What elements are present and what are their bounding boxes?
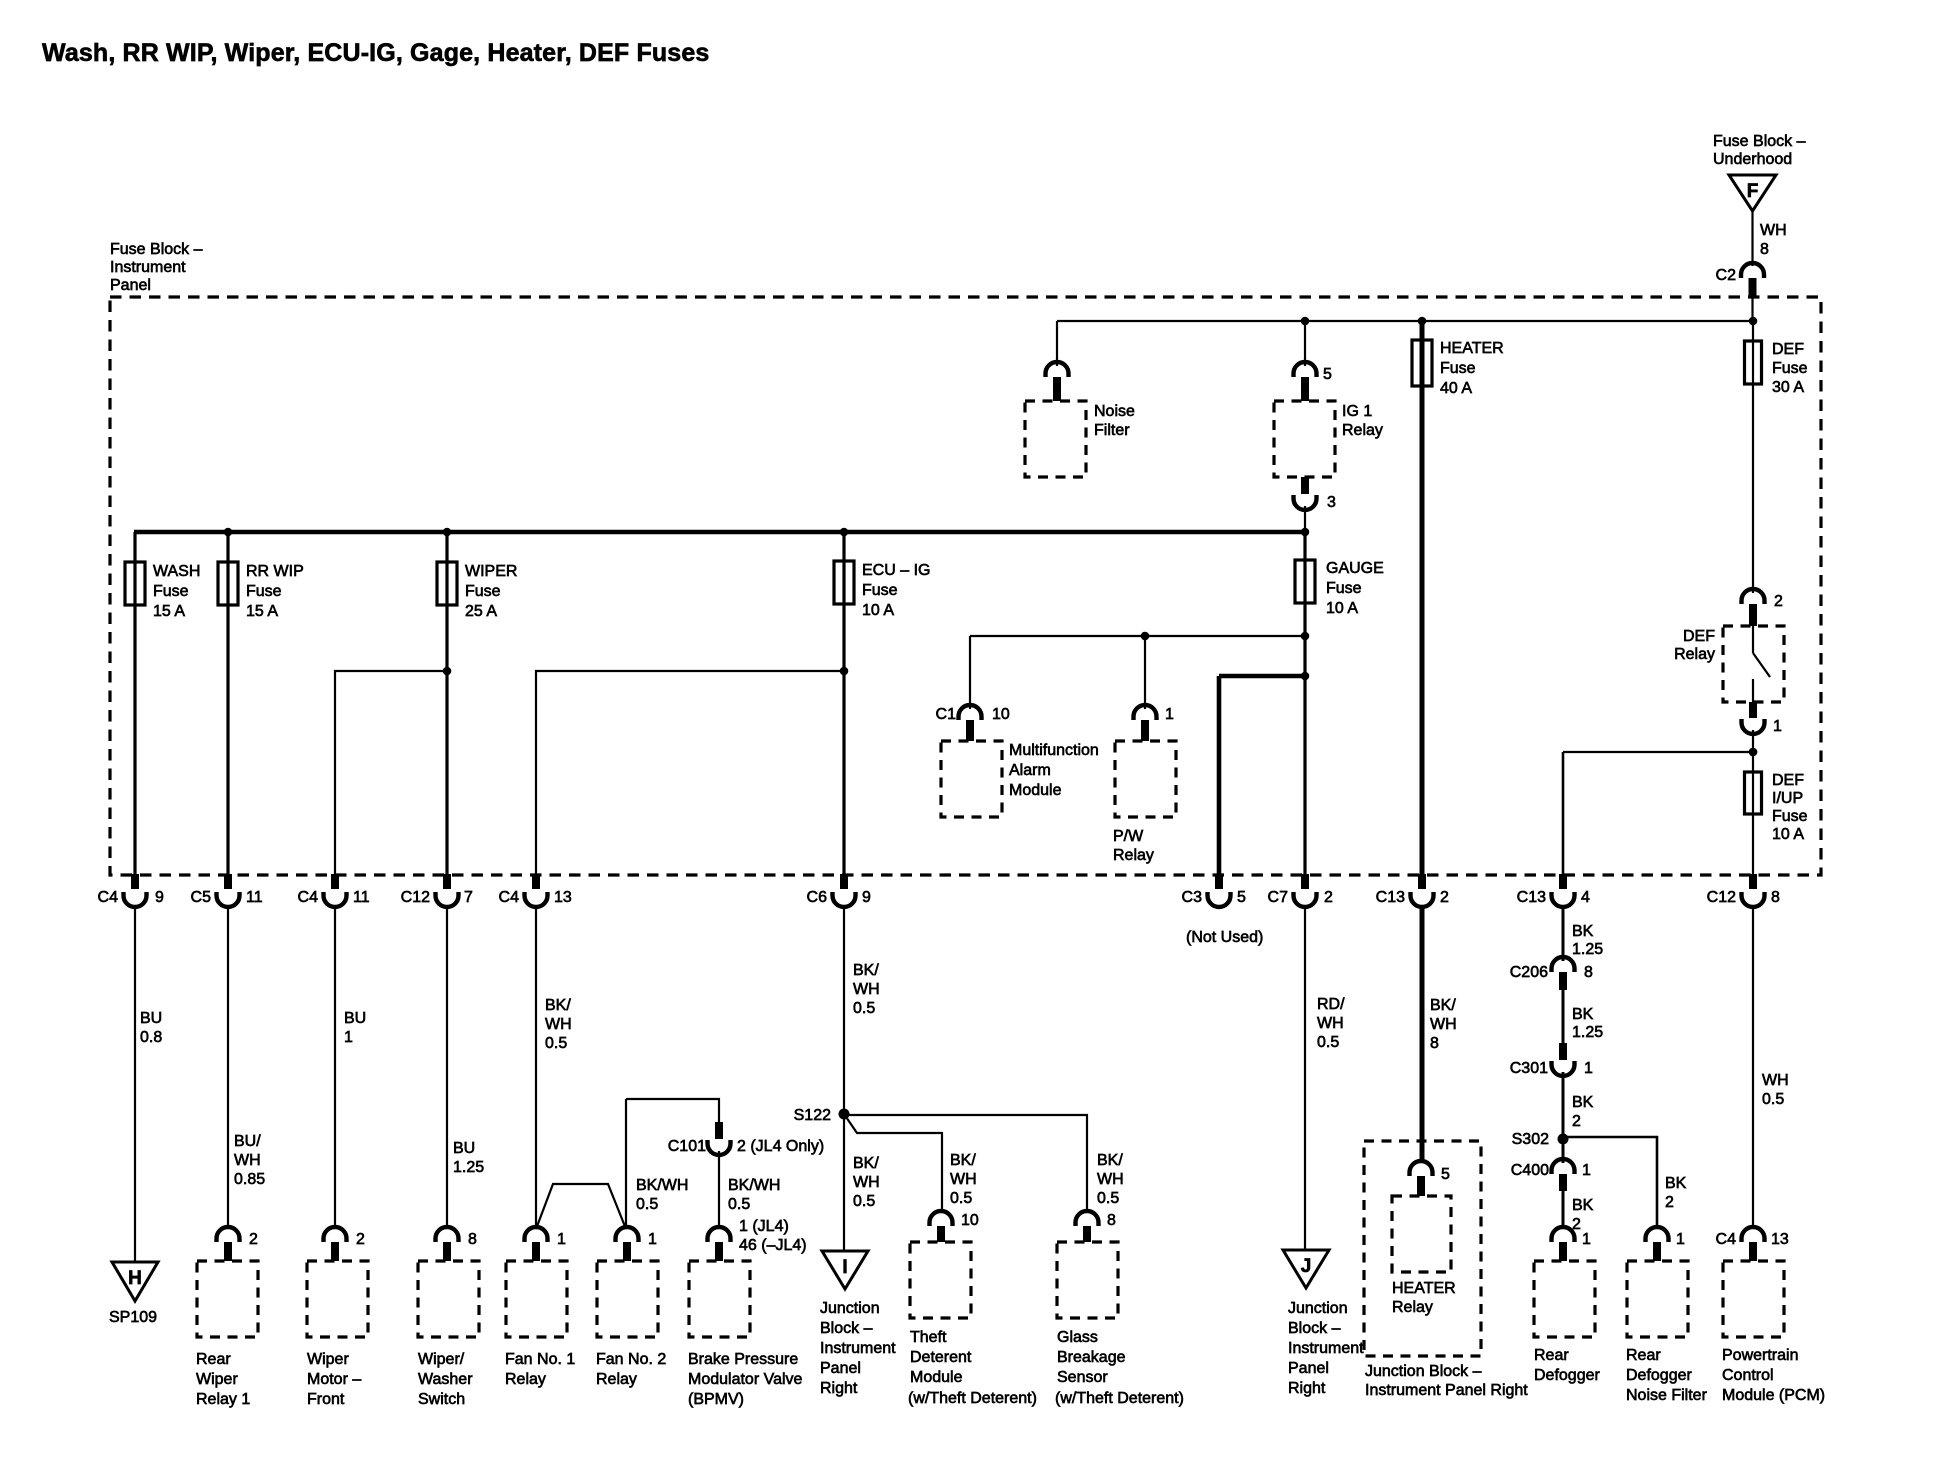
connector C12 pin 8	[1749, 874, 1757, 889]
svg-text:IG 1: IG 1	[1342, 403, 1372, 420]
svg-text:Brake Pressure: Brake Pressure	[688, 1351, 798, 1368]
svg-text:C4: C4	[1716, 1231, 1737, 1248]
svg-text:1.25: 1.25	[1572, 941, 1603, 958]
connector C7 pin 2	[1301, 874, 1309, 889]
svg-text:DEF: DEF	[1772, 341, 1804, 358]
wiper motor - front box	[307, 1261, 368, 1337]
svg-text:DEF: DEF	[1683, 628, 1715, 645]
connector C1 pin 10	[959, 705, 982, 720]
svg-text:C5: C5	[191, 889, 212, 906]
svg-text:WH: WH	[234, 1152, 261, 1169]
svg-text:WH: WH	[545, 1016, 572, 1033]
connector pin 1 - rear defogger noise filter	[1646, 1227, 1669, 1242]
svg-text:BK/: BK/	[545, 997, 571, 1014]
svg-text:Relay: Relay	[596, 1371, 637, 1388]
svg-text:Instrument: Instrument	[820, 1340, 896, 1357]
ground I triangle - junction block instrument panel right	[822, 1251, 868, 1289]
svg-text:0.5: 0.5	[950, 1190, 972, 1207]
svg-text:Relay: Relay	[1342, 422, 1383, 439]
connector pin - BPMV	[708, 1227, 731, 1242]
svg-text:C4: C4	[298, 889, 319, 906]
svg-text:13: 13	[554, 889, 572, 906]
connector pin 5 - IG 1 relay	[1294, 362, 1317, 377]
svg-text:WH: WH	[1762, 1072, 1789, 1089]
svg-text:C12: C12	[1707, 889, 1736, 906]
wire gauge feed to C1 and P/W relay y=636	[970, 635, 1305, 637]
svg-text:C206: C206	[1510, 964, 1548, 981]
svg-text:BK/: BK/	[1430, 997, 1456, 1014]
switch contact inside DEF relay	[1752, 626, 1754, 653]
ground J triangle - junction block instrument panel right	[1283, 1250, 1329, 1288]
svg-text:Glass: Glass	[1057, 1329, 1098, 1346]
svg-text:Breakage: Breakage	[1057, 1349, 1126, 1366]
powertrain control module box	[1723, 1261, 1784, 1337]
svg-text:Wiper: Wiper	[196, 1371, 238, 1388]
svg-text:Fuse: Fuse	[465, 583, 501, 600]
svg-text:BK: BK	[1572, 1094, 1594, 1111]
svg-text:Instrument: Instrument	[110, 259, 186, 276]
svg-text:Deterent: Deterent	[910, 1349, 972, 1366]
connector C4 pin 9	[131, 874, 139, 889]
svg-text:I: I	[842, 1257, 847, 1278]
svg-text:Fuse Block –: Fuse Block –	[1713, 133, 1806, 150]
wire jumper to C101	[626, 1099, 719, 1122]
wire down to fan relay 1, BK/WH 0.5	[535, 905, 537, 1229]
svg-text:Relay: Relay	[505, 1371, 546, 1388]
connector C13 pin 4	[1559, 874, 1567, 889]
svg-text:BK/WH: BK/WH	[636, 1177, 688, 1194]
connector pin 8 - wiper/washer switch	[436, 1227, 459, 1242]
wire DEF relay to DEF I/UP fuse	[1752, 730, 1754, 875]
svg-text:Module: Module	[1009, 782, 1062, 799]
svg-text:1: 1	[557, 1231, 566, 1248]
svg-text:1: 1	[648, 1231, 657, 1248]
connector C301 pin 1	[1559, 1043, 1567, 1060]
svg-text:Junction: Junction	[820, 1300, 880, 1317]
svg-text:13: 13	[1771, 1231, 1789, 1248]
svg-text:WIPER: WIPER	[465, 563, 517, 580]
svg-text:C13: C13	[1517, 889, 1546, 906]
svg-text:5: 5	[1237, 889, 1246, 906]
wire S122 to theft deterrent module	[844, 1114, 942, 1209]
svg-text:4: 4	[1581, 889, 1590, 906]
svg-text:2 (JL4 Only): 2 (JL4 Only)	[737, 1138, 824, 1155]
svg-text:10 A: 10 A	[1326, 600, 1358, 617]
svg-text:RD/: RD/	[1317, 996, 1345, 1013]
svg-text:Relay: Relay	[1674, 646, 1715, 663]
svg-text:Fuse: Fuse	[1772, 360, 1808, 377]
svg-text:2: 2	[1572, 1113, 1581, 1130]
svg-text:P/W: P/W	[1113, 828, 1144, 845]
svg-text:40 A: 40 A	[1440, 380, 1472, 397]
svg-text:Noise Filter: Noise Filter	[1626, 1387, 1708, 1404]
connector pin - noise filter	[1046, 362, 1069, 377]
wire S302 to rear defogger noise filter	[1563, 1137, 1657, 1227]
svg-text:Relay 1: Relay 1	[196, 1391, 250, 1408]
connector C5 pin 11	[224, 874, 232, 889]
svg-text:(Not Used): (Not Used)	[1186, 929, 1263, 946]
svg-text:Front: Front	[307, 1391, 345, 1408]
svg-text:Fan No. 2: Fan No. 2	[596, 1351, 666, 1368]
svg-text:WASH: WASH	[153, 563, 200, 580]
svg-text:Block –: Block –	[820, 1320, 873, 1337]
svg-text:C4: C4	[499, 889, 520, 906]
svg-text:WH: WH	[1430, 1016, 1457, 1033]
wire DEF relay output to C13 pin 4 branch	[1563, 751, 1753, 753]
svg-text:Fuse: Fuse	[1440, 360, 1476, 377]
svg-text:WH: WH	[1317, 1015, 1344, 1032]
svg-text:C12: C12	[401, 889, 430, 906]
wire from C101 header to fan no.2 pin	[625, 1099, 627, 1229]
wiper/washer switch box	[418, 1261, 479, 1337]
svg-text:2: 2	[356, 1231, 365, 1248]
svg-text:WH: WH	[1097, 1171, 1124, 1188]
connector C13 pin 2	[1418, 874, 1426, 889]
svg-text:(BPMV): (BPMV)	[688, 1391, 744, 1408]
svg-text:H: H	[128, 1268, 142, 1289]
svg-text:0.5: 0.5	[1762, 1091, 1784, 1108]
wire RR WIP branch	[226, 532, 229, 875]
wire C101 to BPMV, BK/WH 0.5	[718, 1151, 720, 1229]
svg-text:C301: C301	[1510, 1060, 1548, 1077]
svg-text:8: 8	[1584, 964, 1593, 981]
svg-text:0.5: 0.5	[853, 1193, 875, 1210]
connector pin 1 - fan no.1 relay	[525, 1227, 548, 1242]
svg-text:Junction: Junction	[1288, 1300, 1348, 1317]
fuse DEF 30A	[1752, 321, 1754, 593]
svg-text:0.5: 0.5	[1317, 1034, 1339, 1051]
svg-text:0.85: 0.85	[234, 1171, 265, 1188]
svg-text:S122: S122	[794, 1107, 831, 1124]
wire, BK 1.25	[1562, 990, 1565, 1043]
connector C206 pin 8	[1552, 957, 1575, 972]
wire, BK 2	[1562, 1191, 1565, 1229]
svg-text:C7: C7	[1268, 889, 1289, 906]
svg-text:1: 1	[1582, 1162, 1591, 1179]
svg-text:1: 1	[1584, 1060, 1593, 1077]
fuse HEATER 40A	[1412, 340, 1432, 386]
fuse GAUGE 10A	[1295, 560, 1315, 603]
svg-text:Relay: Relay	[1392, 1299, 1433, 1316]
wire F to C2, WH 8	[1751, 211, 1753, 266]
svg-text:Instrument: Instrument	[1288, 1340, 1364, 1357]
svg-text:Block –: Block –	[1288, 1320, 1341, 1337]
svg-text:0.5: 0.5	[853, 1000, 875, 1017]
svg-text:Fuse: Fuse	[153, 583, 189, 600]
wire drop to C1	[969, 636, 971, 709]
svg-text:8: 8	[1107, 1212, 1116, 1229]
svg-text:15 A: 15 A	[153, 603, 185, 620]
svg-text:Panel: Panel	[820, 1360, 861, 1377]
svg-text:HEATER: HEATER	[1440, 340, 1504, 357]
connector C101 pin 2	[715, 1122, 723, 1139]
svg-text:SP109: SP109	[109, 1309, 157, 1326]
svg-text:8: 8	[1771, 889, 1780, 906]
svg-text:Rear: Rear	[1534, 1347, 1569, 1364]
wire ECU-IG branch	[842, 532, 845, 875]
svg-text:DEF: DEF	[1772, 772, 1804, 789]
svg-text:2: 2	[1774, 593, 1783, 610]
rear defogger noise filter box	[1627, 1261, 1688, 1337]
svg-text:0.5: 0.5	[636, 1196, 658, 1213]
svg-text:1: 1	[1676, 1231, 1685, 1248]
svg-text:C6: C6	[807, 889, 828, 906]
svg-text:10: 10	[992, 706, 1010, 723]
svg-text:Washer: Washer	[418, 1371, 473, 1388]
svg-text:46 (–JL4): 46 (–JL4)	[739, 1237, 807, 1254]
svg-text:C4: C4	[98, 889, 119, 906]
wire, BK 2	[1562, 1072, 1565, 1139]
fuse RR WIP 15A	[218, 562, 238, 605]
connector pin 1 - rear defogger	[1552, 1227, 1575, 1242]
svg-text:8: 8	[1760, 241, 1769, 258]
connector pin 10 - theft deterrent module	[930, 1211, 953, 1226]
svg-text:2: 2	[1324, 889, 1333, 906]
connector C6 pin 9	[840, 874, 848, 889]
svg-text:Motor –: Motor –	[307, 1371, 361, 1388]
svg-text:2: 2	[1665, 1194, 1674, 1211]
svg-text:RR WIP: RR WIP	[246, 563, 304, 580]
connector C12 pin 7	[443, 874, 451, 889]
svg-text:F: F	[1747, 181, 1759, 202]
glass breakage sensor box	[1057, 1242, 1118, 1318]
connector C4 pin 13	[532, 874, 540, 889]
svg-text:BU: BU	[344, 1010, 366, 1027]
svg-text:1 (JL4): 1 (JL4)	[739, 1218, 789, 1235]
splice S302	[1558, 1134, 1569, 1145]
wire to heater relay, BK/WH 8	[1420, 905, 1425, 1161]
svg-text:Rear: Rear	[196, 1351, 231, 1368]
IG 1 relay drop wire	[1304, 321, 1306, 366]
connector C400 pin 1	[1562, 1139, 1565, 1163]
svg-text:1: 1	[1165, 706, 1174, 723]
svg-text:GAUGE: GAUGE	[1326, 560, 1384, 577]
svg-text:WH: WH	[1760, 222, 1787, 239]
svg-text:Sensor: Sensor	[1057, 1369, 1108, 1386]
svg-text:2: 2	[249, 1231, 258, 1248]
svg-text:BK/: BK/	[853, 1155, 879, 1172]
svg-text:15 A: 15 A	[246, 603, 278, 620]
relay U - IG 1 Relay box	[1274, 401, 1335, 477]
svg-text:BK: BK	[1572, 923, 1594, 940]
svg-text:1.25: 1.25	[453, 1159, 484, 1176]
svg-text:1.25: 1.25	[1572, 1024, 1603, 1041]
wire drop to P/W relay	[1144, 636, 1146, 709]
junction block - instrument panel right outer dashed box	[1364, 1141, 1481, 1356]
wire HEATER branch (thick)	[1420, 321, 1425, 875]
svg-text:Junction Block –: Junction Block –	[1365, 1363, 1482, 1380]
wire to wiper motor, BU 1	[334, 905, 336, 1229]
svg-text:0.5: 0.5	[728, 1196, 750, 1213]
wire C4-13 branch up to ECU-IG wire	[536, 671, 844, 875]
connector pin 1 - fan no.2 relay	[616, 1227, 639, 1242]
svg-text:BK/: BK/	[950, 1152, 976, 1169]
svg-text:11: 11	[246, 889, 263, 906]
fuse ECU-IG 10A	[834, 561, 854, 604]
svg-text:7: 7	[464, 889, 473, 906]
svg-text:Control: Control	[1722, 1367, 1774, 1384]
wire C3 thick branch y=676	[1219, 674, 1305, 679]
noise filter box	[1025, 401, 1086, 477]
svg-text:Defogger: Defogger	[1534, 1367, 1600, 1384]
svg-text:BK/: BK/	[853, 962, 879, 979]
svg-text:10: 10	[961, 1212, 979, 1229]
wire tent split to fan relay 2	[536, 1184, 626, 1229]
svg-text:Fuse: Fuse	[1326, 580, 1362, 597]
noise filter drop wire	[1056, 321, 1058, 366]
relay - P/W relay box	[1115, 741, 1176, 817]
fuse WIPER 25A	[437, 562, 457, 605]
svg-text:30 A: 30 A	[1772, 379, 1804, 396]
svg-text:9: 9	[155, 889, 164, 906]
svg-text:Fan No. 1: Fan No. 1	[505, 1351, 575, 1368]
svg-text:C2: C2	[1716, 267, 1737, 284]
svg-text:C101: C101	[668, 1138, 706, 1155]
svg-text:Multifunction: Multifunction	[1009, 742, 1099, 759]
svg-text:5: 5	[1323, 366, 1332, 383]
fan no. 1 relay box	[506, 1261, 567, 1337]
svg-text:25 A: 25 A	[465, 603, 497, 620]
wire - top distribution bus y=321	[1057, 320, 1753, 322]
svg-text:Modulator Valve: Modulator Valve	[688, 1371, 803, 1388]
svg-text:BK: BK	[1572, 1006, 1594, 1023]
svg-text:Fuse: Fuse	[862, 582, 898, 599]
svg-text:Wiper/: Wiper/	[418, 1351, 465, 1368]
fan no. 2 relay box	[597, 1261, 658, 1337]
svg-text:BK: BK	[1665, 1175, 1687, 1192]
svg-text:2: 2	[1440, 889, 1449, 906]
svg-text:3: 3	[1327, 494, 1336, 511]
svg-text:Underhood: Underhood	[1713, 151, 1792, 168]
svg-text:Filter: Filter	[1094, 422, 1130, 439]
svg-text:10 A: 10 A	[1772, 826, 1804, 843]
relay - HEATER relay box	[1392, 1196, 1451, 1272]
svg-text:8: 8	[468, 1231, 477, 1248]
svg-text:Rear: Rear	[1626, 1347, 1661, 1364]
svg-text:8: 8	[1430, 1035, 1439, 1052]
wire WIPER branch	[445, 532, 448, 875]
connector pin 1 - DEF relay	[1749, 702, 1757, 718]
wire C2 into fuse block	[1751, 297, 1753, 321]
svg-text:BK/WH: BK/WH	[728, 1177, 780, 1194]
svg-text:BU/: BU/	[234, 1133, 261, 1150]
connector C3 pin 5 (not used)	[1215, 874, 1223, 889]
svg-text:Noise: Noise	[1094, 403, 1135, 420]
connector pin 2 - wiper motor	[324, 1227, 347, 1242]
svg-text:Right: Right	[820, 1380, 858, 1397]
wire S122 to glass breakage sensor	[844, 1115, 1087, 1209]
svg-text:0.5: 0.5	[1097, 1190, 1119, 1207]
rear wiper relay 1 box	[197, 1261, 258, 1337]
theft deterrent module box	[910, 1242, 971, 1318]
svg-text:HEATER: HEATER	[1392, 1280, 1456, 1297]
fuse block - instrument panel dashed box	[110, 297, 1821, 875]
splice S122	[839, 1109, 850, 1120]
wire to junction J, RD/WH 0.5	[1304, 905, 1306, 1250]
connector pin 5 - heater relay	[1410, 1161, 1433, 1176]
svg-text:Wash, RR WIP, Wiper, ECU-IG, G: Wash, RR WIP, Wiper, ECU-IG, Gage, Heate…	[42, 39, 709, 67]
wire to rear wiper relay, BU/WH 0.85	[227, 905, 229, 1229]
svg-text:Module (PCM): Module (PCM)	[1722, 1387, 1825, 1404]
svg-text:Fuse: Fuse	[246, 583, 282, 600]
svg-text:WH: WH	[853, 1174, 880, 1191]
wire C4-11 branch up to WIPER wire	[335, 671, 447, 875]
svg-text:0.8: 0.8	[140, 1029, 162, 1046]
svg-text:10 A: 10 A	[862, 602, 894, 619]
wire, BK 1.25	[1562, 905, 1565, 961]
svg-text:1: 1	[1582, 1231, 1591, 1248]
svg-text:9: 9	[862, 889, 871, 906]
connector pin 8 - glass breakage sensor	[1076, 1211, 1099, 1226]
svg-text:Switch: Switch	[418, 1391, 465, 1408]
svg-text:Theft: Theft	[910, 1329, 947, 1346]
wire WASH branch	[133, 532, 136, 875]
svg-text:Fuse Block –: Fuse Block –	[110, 241, 203, 258]
connector pin 2 - DEF relay	[1742, 589, 1765, 604]
svg-text:C13: C13	[1376, 889, 1405, 906]
svg-text:11: 11	[353, 889, 370, 906]
connector pin 2 - rear wiper relay 1	[217, 1227, 240, 1242]
svg-text:C3: C3	[1182, 889, 1203, 906]
wire IG1 pin3 to main bus	[1304, 506, 1306, 532]
svg-text:0.5: 0.5	[545, 1035, 567, 1052]
svg-text:5: 5	[1441, 1166, 1450, 1183]
svg-text:J: J	[1301, 1256, 1312, 1277]
svg-text:Relay: Relay	[1113, 847, 1154, 864]
svg-text:BU: BU	[140, 1010, 162, 1027]
wire to ground H, BU 0.8	[134, 905, 136, 1262]
fuse DEF I/UP 10A	[1745, 772, 1762, 814]
svg-text:Instrument Panel Right: Instrument Panel Right	[1365, 1382, 1528, 1399]
brake pressure modulator valve box	[689, 1261, 750, 1337]
svg-text:C400: C400	[1511, 1162, 1549, 1179]
svg-text:Fuse: Fuse	[1772, 808, 1808, 825]
wire GAUGE branch	[1303, 532, 1306, 875]
svg-text:(w/Theft Deterent): (w/Theft Deterent)	[908, 1390, 1037, 1407]
connector C4 pin 11	[331, 874, 339, 889]
svg-text:BK/: BK/	[1097, 1152, 1123, 1169]
svg-text:1: 1	[344, 1029, 353, 1046]
connector pin 3 - IG 1 relay	[1301, 477, 1309, 494]
svg-text:Wiper: Wiper	[307, 1351, 349, 1368]
multifunction alarm module box	[941, 741, 1002, 817]
svg-text:Alarm: Alarm	[1009, 762, 1051, 779]
svg-text:Defogger: Defogger	[1626, 1367, 1692, 1384]
connector C4 pin 13 - PCM	[1742, 1227, 1765, 1242]
wire to PCM, WH 0.5	[1752, 905, 1754, 1229]
svg-text:BU: BU	[453, 1140, 475, 1157]
svg-text:C1: C1	[936, 706, 957, 723]
wire - main fuse bus y=532	[134, 530, 1305, 535]
svg-text:ECU – IG: ECU – IG	[862, 562, 930, 579]
svg-text:Panel: Panel	[1288, 1360, 1329, 1377]
rear defogger box	[1534, 1261, 1595, 1337]
svg-text:Panel: Panel	[110, 277, 151, 294]
svg-text:BK: BK	[1572, 1197, 1594, 1214]
fuse WASH 15A	[125, 562, 145, 605]
svg-text:(w/Theft Deterent): (w/Theft Deterent)	[1055, 1390, 1184, 1407]
svg-text:S302: S302	[1512, 1131, 1549, 1148]
wire to wiper/washer switch, BU 1.25	[446, 905, 448, 1229]
relay - DEF relay box with switch	[1723, 626, 1784, 702]
svg-text:WH: WH	[950, 1171, 977, 1188]
svg-text:I/UP: I/UP	[1772, 790, 1803, 807]
svg-text:1: 1	[1773, 718, 1782, 735]
ground H triangle SP109	[112, 1262, 158, 1301]
svg-text:Right: Right	[1288, 1380, 1326, 1397]
connector pin 1 - P/W relay	[1134, 705, 1157, 720]
wire to splice S122, BK/WH 0.5	[843, 905, 845, 1251]
